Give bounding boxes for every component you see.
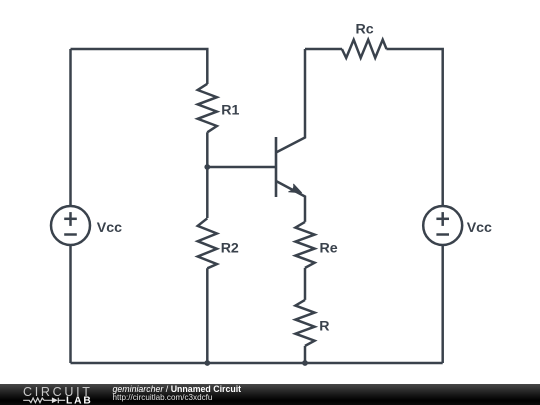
logo symbol: resistor + diode [23, 398, 65, 404]
svg-text:Re: Re [320, 240, 338, 256]
wire: node to R2 [206, 167, 209, 218]
wire: Re to R [304, 268, 307, 300]
wire: left rail lower [69, 245, 72, 363]
svg-text:R2: R2 [221, 240, 239, 256]
svg-text:Vcc: Vcc [97, 220, 122, 236]
transistor Q1 emitter [276, 181, 305, 222]
resistor R1 [198, 84, 217, 133]
wire: bottom rail [71, 362, 443, 365]
wire: R1 to node [206, 132, 209, 167]
logo CIRCUIT LAB [0, 384, 110, 405]
footer bar [0, 384, 540, 405]
credit text [113, 385, 242, 394]
wire: Rc left lead [305, 48, 342, 51]
resistor Rc [342, 40, 387, 58]
resistor R2 [198, 218, 217, 268]
node: R2 bottom junction [204, 360, 210, 366]
svg-text:Rc: Rc [356, 22, 374, 38]
wire: Rc right lead + right rail upper [386, 49, 442, 206]
wire: base [207, 166, 276, 169]
transistor Q1 base bar [275, 137, 278, 197]
node: R bottom junction [302, 360, 308, 366]
transistor Q1 collector [276, 49, 305, 153]
svg-text:Vcc: Vcc [467, 220, 492, 236]
node: base junction [204, 164, 210, 170]
wire: top-left rail [71, 49, 208, 84]
transistor Q1 emitter arrow [289, 184, 302, 193]
wire: R to bottom rail [304, 346, 307, 363]
svg-text:R: R [319, 318, 329, 334]
voltage source Vcc (left) [51, 206, 90, 245]
svg-text:R1: R1 [221, 103, 239, 119]
wire: right rail lower [441, 245, 444, 363]
voltage source Vcc (right) [423, 206, 462, 245]
svg-text:LAB: LAB [66, 396, 93, 405]
wire: R2 to bottom rail [206, 268, 209, 363]
wire: left rail upper [69, 49, 72, 206]
resistor R [295, 300, 314, 346]
resistor Re [295, 222, 314, 268]
